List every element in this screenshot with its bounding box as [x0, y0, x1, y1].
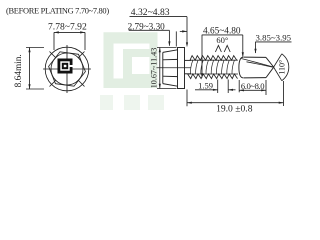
- svg-text:8.64min.: 8.64min.: [14, 54, 24, 87]
- thread: [188, 56, 238, 79]
- svg-text:4.32~4.83: 4.32~4.83: [131, 7, 170, 18]
- dim 19.0 +-0.8: [187, 81, 284, 106]
- svg-text:(BEFORE PLATING 7.70~7.80): (BEFORE PLATING 7.70~7.80): [6, 7, 109, 16]
- diagonal tick NE: [78, 52, 85, 59]
- svg-text:10.67~11.43: 10.67~11.43: [149, 48, 158, 89]
- svg-text:19.0 ±0.8: 19.0 ±0.8: [216, 104, 253, 115]
- hex inscribed circle front view: [51, 53, 83, 85]
- hex facet line upper: [163, 58, 178, 60]
- svg-text:60°: 60°: [216, 35, 228, 45]
- dim 2.79~3.30: [129, 30, 187, 46]
- dim 7.78~7.92: [54, 32, 85, 50]
- shank: [185, 59, 192, 61]
- svg-text:110°: 110°: [277, 60, 286, 75]
- drill flute lines: [242, 59, 274, 68]
- centerline vertical front view: [66, 45, 68, 93]
- diagonal tick SE: [78, 80, 85, 87]
- centerline horizontal front view: [43, 68, 91, 70]
- head hex profile side view: [162, 52, 164, 83]
- svg-text:6.0~8.0: 6.0~8.0: [241, 81, 264, 91]
- svg-text:1.59: 1.59: [198, 81, 213, 91]
- washer flange side view: [178, 48, 185, 89]
- 60 deg thread angle annotation: [215, 45, 230, 52]
- dim 8.64min.: [26, 48, 44, 90]
- 110 deg point angle annotation: [274, 54, 289, 81]
- dim 10.67~11.43: [157, 48, 177, 89]
- dim 1.59: [195, 80, 236, 94]
- dim 6.0~8.0: [239, 80, 266, 95]
- watermark logo inner C: [123, 49, 150, 79]
- watermark logo outer ring: [104, 32, 158, 88]
- hex facet line lower: [163, 75, 178, 77]
- svg-text:7.78~7.92: 7.78~7.92: [48, 22, 87, 33]
- dim 4.65~4.80: [202, 35, 243, 78]
- dim 3.85~3.95: [255, 42, 291, 53]
- thread root coils: [190, 60, 234, 74]
- hexagon front view: [49, 52, 86, 86]
- svg-text:2.79~3.30: 2.79~3.30: [128, 21, 166, 31]
- watermark faint tile 3: [148, 95, 164, 110]
- drive recess logo (front view): [58, 59, 73, 74]
- diagonal tick NW: [50, 52, 57, 59]
- drill point body: [239, 57, 274, 78]
- watermark faint tile 1: [100, 95, 113, 110]
- svg-text:3.85~3.95: 3.85~3.95: [256, 32, 292, 42]
- washer outer circle front view: [45, 47, 89, 91]
- watermark faint tile 2: [124, 95, 140, 110]
- side view centerline: [157, 67, 192, 69]
- diagonal tick SW: [50, 80, 57, 87]
- dim 4.32~4.83: [130, 17, 188, 44]
